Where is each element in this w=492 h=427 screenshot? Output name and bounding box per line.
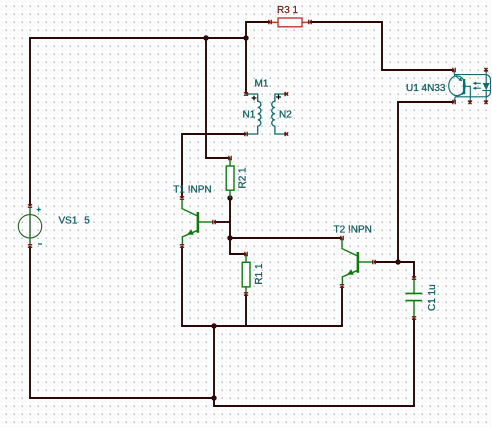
svg-text:VS1: VS1 [59, 215, 78, 226]
svg-text:C1 1u: C1 1u [427, 284, 438, 311]
svg-text:R3 1: R3 1 [277, 5, 299, 16]
svg-text:5: 5 [84, 215, 90, 226]
svg-text:T1 !NPN: T1 !NPN [173, 184, 211, 195]
svg-text:R2 1: R2 1 [238, 167, 249, 189]
svg-text:R1 1: R1 1 [254, 263, 265, 285]
svg-text:U1 4N33: U1 4N33 [406, 83, 446, 94]
svg-text:N1: N1 [243, 109, 256, 120]
svg-text:M1: M1 [255, 79, 269, 90]
svg-text:N2: N2 [279, 109, 292, 120]
svg-text:T2 !NPN: T2 !NPN [334, 224, 372, 235]
